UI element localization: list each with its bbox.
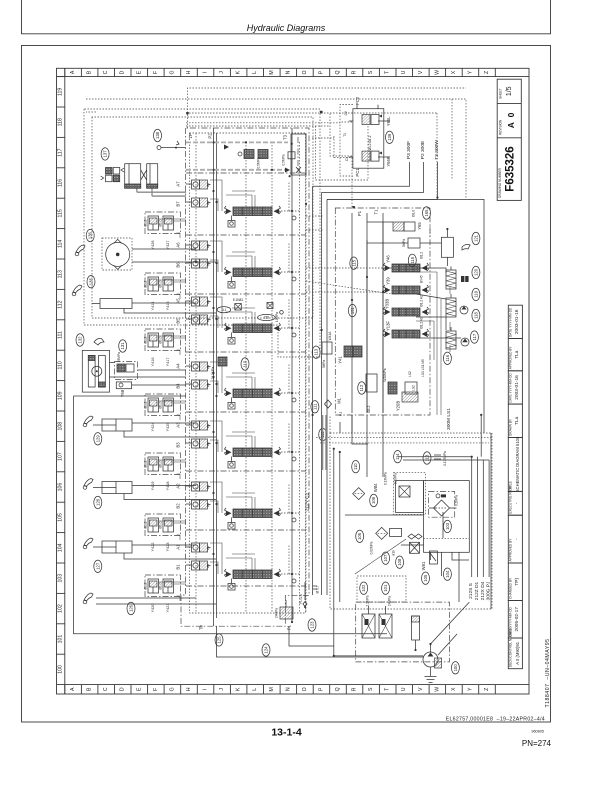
svg-text:J: J	[219, 71, 225, 74]
svg-text:101: 101	[383, 584, 388, 592]
svg-text:104: 104	[445, 570, 450, 578]
label ellipse 136	[86, 229, 94, 241]
relief spring stacks	[446, 266, 456, 349]
label ellipse 113	[312, 346, 320, 358]
svg-text:Hydraulic Diagrams: Hydraulic Diagrams	[247, 23, 326, 33]
hose icon 132	[94, 338, 104, 345]
svg-text:T188407 –UN–04MAY95: T188407 –UN–04MAY95	[545, 638, 551, 707]
label ellipse 124	[262, 644, 270, 656]
pilot solenoid pair Y419/Y418	[144, 453, 187, 490]
svg-text:108: 108	[397, 558, 402, 566]
svg-text:Ø1.0: Ø1.0	[159, 582, 163, 589]
svg-text:Y418: Y418	[166, 482, 170, 491]
filter 110 diamond	[353, 488, 365, 500]
svg-text:117: 117	[472, 333, 477, 340]
svg-text:Y46: Y46	[386, 255, 391, 263]
second pilot rail	[186, 169, 287, 171]
port code labels	[468, 581, 491, 600]
svg-text:111: 111	[58, 331, 64, 339]
pilot solenoid pair Y420/Y421	[144, 575, 187, 612]
svg-text:108: 108	[58, 422, 64, 431]
label ellipse 110	[241, 358, 249, 370]
svg-text:SHEET: SHEET	[499, 88, 503, 99]
svg-text:ø19: ø19	[392, 550, 396, 556]
main manifold dash-dot box	[181, 128, 309, 626]
valve section A2/B2	[175, 482, 300, 529]
nested dotted boundary bottoms	[316, 405, 493, 470]
svg-text:100: 100	[58, 665, 64, 674]
svg-text:LS2: LS2	[412, 385, 416, 391]
svg-text:102: 102	[58, 604, 64, 613]
svg-text:102: 102	[361, 584, 366, 592]
svg-text:W41A: W41A	[328, 331, 332, 341]
svg-text:R: R	[352, 70, 358, 74]
svg-text:B5: B5	[175, 318, 180, 324]
svg-text:116: 116	[58, 179, 64, 187]
svg-text:T3: T3	[283, 134, 288, 140]
inner pilot dotted box	[92, 117, 313, 318]
svg-text:TLa: TLa	[514, 350, 520, 359]
svg-text:B6: B6	[175, 262, 180, 268]
label ellipse 110	[352, 461, 360, 473]
A5 extra valves	[233, 298, 283, 314]
svg-text:131: 131	[120, 342, 125, 350]
svg-text:Y41: Y41	[338, 356, 343, 364]
svg-text:Y425: Y425	[166, 423, 170, 432]
svg-text:¤¶¤: ¤¶¤	[206, 423, 210, 428]
check 106	[370, 527, 402, 554]
svg-text:Ø1.2: Ø1.2	[144, 336, 148, 343]
svg-text:3MPa: 3MPa	[322, 360, 326, 369]
valve Y39	[384, 275, 429, 294]
bottom accumulator dash-dot box	[356, 602, 450, 662]
suction return long lines	[334, 449, 423, 656]
svg-text:¤¶¤: ¤¶¤	[206, 484, 210, 489]
label ellipse 114	[394, 451, 402, 463]
accumulator solenoid valves	[362, 606, 392, 638]
main pump	[423, 652, 438, 676]
svg-text:A: A	[70, 70, 76, 74]
svg-text:X: X	[451, 687, 457, 691]
plugged port	[282, 152, 302, 173]
svg-text:0.5MPa: 0.5MPa	[282, 154, 286, 165]
svg-text:G: G	[169, 687, 175, 691]
svg-text:110: 110	[353, 463, 358, 470]
svg-text:118: 118	[473, 311, 478, 318]
port labels Tb P1	[199, 608, 292, 630]
svg-text:Z: Z	[484, 71, 490, 74]
cylinder 135	[92, 299, 216, 314]
rail labels	[188, 133, 378, 216]
svg-text:W20MPa: W20MPa	[383, 368, 387, 381]
label ellipse 111	[311, 401, 319, 413]
svg-text:111: 111	[312, 403, 317, 410]
svg-text:2.2MPa: 2.2MPa	[366, 595, 370, 606]
svg-text:H: H	[186, 70, 192, 74]
tank symbol	[425, 677, 437, 683]
svg-text:L: L	[252, 688, 258, 691]
svg-text:J: J	[219, 688, 225, 691]
svg-text:B3: B3	[175, 442, 180, 448]
port code lines	[398, 415, 490, 577]
swing motor	[106, 239, 130, 269]
svg-text:B2: B2	[175, 503, 180, 509]
svg-text:0.5MPa: 0.5MPa	[256, 157, 260, 168]
svg-text:Y420: Y420	[151, 604, 155, 613]
0.5MPa check pair	[224, 145, 268, 169]
svg-text:137: 137	[103, 150, 108, 158]
svg-text:114: 114	[58, 240, 64, 248]
valve section A4/B4	[175, 362, 300, 409]
svg-text:B: B	[87, 687, 93, 691]
top-right port labels	[406, 140, 440, 160]
svg-text:Z: Z	[484, 688, 490, 691]
svg-text:0.175MPa: 0.175MPa	[443, 451, 447, 466]
cooler 108	[410, 542, 420, 553]
svg-text:126: 126	[129, 604, 134, 612]
svg-text:Y417: Y417	[166, 358, 170, 367]
cylinder row 127	[93, 541, 132, 553]
svg-text:2003-01-16: 2003-01-16	[514, 309, 520, 334]
svg-text:155: 155	[264, 316, 270, 320]
svg-text:115: 115	[58, 209, 64, 217]
dotted box around 101/102	[357, 576, 406, 602]
svg-text:1/5: 1/5	[506, 86, 513, 96]
svg-text:23MPa: 23MPa	[117, 352, 121, 362]
svg-text:M: M	[269, 70, 275, 74]
svg-text:106: 106	[357, 532, 362, 540]
svg-text:T1: T1	[373, 209, 378, 215]
svg-text:119: 119	[473, 290, 478, 297]
svg-text:TLa: TLa	[514, 416, 520, 425]
grid strips	[57, 68, 530, 694]
label ellipse 132	[76, 334, 84, 346]
small circle F	[461, 338, 469, 346]
svg-text:Y39: Y39	[386, 277, 391, 285]
svg-text:Y: Y	[467, 70, 473, 74]
pump assembly dotted box	[330, 433, 492, 609]
svg-text:G: G	[169, 70, 175, 74]
svg-text:101: 101	[58, 635, 64, 644]
svg-text:¤¶¤: ¤¶¤	[206, 545, 210, 550]
svg-text:1P: 1P	[188, 133, 193, 138]
svg-text:Y13F: Y13F	[386, 321, 391, 331]
pilot controller Y66 dashed enclosure	[340, 105, 353, 177]
label ellipse 115	[350, 257, 358, 269]
svg-text:Y20B: Y20B	[396, 401, 401, 411]
svg-text:129: 129	[95, 435, 100, 443]
svg-text:135: 135	[89, 278, 94, 286]
svg-text:Ø1.0: Ø1.0	[159, 336, 163, 343]
LS shuttle group	[366, 368, 417, 394]
svg-text:Q: Q	[335, 687, 341, 691]
svg-text:B7: B7	[175, 201, 180, 207]
svg-text:PC2: PC2	[355, 96, 360, 105]
valve section A5/B5	[175, 297, 300, 344]
svg-text:151: 151	[350, 306, 355, 314]
svg-text:2005-02-17: 2005-02-17	[514, 607, 520, 632]
pilot valve Y68	[115, 352, 138, 397]
svg-text:M: M	[269, 687, 275, 691]
svg-text:¤¶¤: ¤¶¤	[206, 382, 210, 387]
svg-text:C: C	[103, 70, 109, 74]
dotted box around breather	[394, 473, 426, 515]
svg-text:P3 300F: P3 300F	[406, 141, 412, 159]
svg-text:P: P	[318, 687, 324, 691]
svg-text:103: 103	[58, 574, 64, 583]
svg-text:125: 125	[217, 636, 222, 644]
svg-text:D: D	[120, 687, 126, 691]
pilot valve Y65	[393, 210, 422, 231]
svg-text:P2 300E: P2 300E	[420, 141, 426, 159]
pilot solenoid pair Y414/Y415	[144, 273, 187, 310]
reducing valve W42	[402, 238, 420, 248]
label ellipse 151	[348, 304, 356, 316]
svg-text:136: 136	[88, 231, 93, 239]
secondary manifold dash-dot box	[335, 208, 430, 415]
svg-text:DRAWING NUMBER: DRAWING NUMBER	[498, 167, 502, 198]
svg-text:Ø1.2: Ø1.2	[367, 405, 371, 412]
svg-text:A4: A4	[175, 363, 180, 369]
label ellipse 117	[470, 331, 478, 343]
svg-text:107: 107	[383, 554, 388, 562]
grid letters top/bottom	[65, 68, 496, 694]
svg-text:¤¶¤: ¤¶¤	[206, 200, 210, 205]
svg-text:S: S	[368, 687, 374, 691]
pilot solenoid pair Y426/Y427	[144, 212, 187, 249]
label ellipse 103	[443, 520, 451, 532]
gauge block	[435, 658, 442, 668]
svg-text:105: 105	[423, 574, 428, 582]
svg-text:2003-01-16: 2003-01-16	[514, 375, 520, 400]
pilot port lines	[313, 112, 439, 199]
svg-text:Tb: Tb	[199, 624, 204, 630]
svg-text:A 0: A 0	[506, 112, 516, 128]
breather sub-box	[396, 481, 424, 513]
label ellipse 119	[472, 288, 480, 300]
tank-to-pump wires	[431, 552, 460, 602]
svg-text:107: 107	[58, 452, 64, 461]
svg-text:138: 138	[155, 131, 160, 139]
svg-text:1L1: 1L1	[221, 308, 227, 312]
svg-text:¤¶¤: ¤¶¤	[206, 563, 210, 568]
svg-text:Ø1.0: Ø1.0	[412, 210, 416, 217]
svg-text:0.13MPa: 0.13MPa	[384, 472, 388, 485]
title block	[497, 79, 522, 669]
svg-text:106: 106	[58, 483, 64, 492]
valve section A6/B6	[175, 241, 300, 288]
svg-text:212Z D1: 212Z D1	[474, 581, 480, 600]
regulator cylinder	[441, 229, 453, 266]
svg-text:127: 127	[95, 562, 100, 570]
svg-text:T1: T1	[343, 133, 347, 137]
outer figure box	[22, 46, 551, 723]
label ellipse 116	[443, 352, 451, 364]
svg-text:W81: W81	[421, 561, 426, 570]
label ellipse 107	[382, 552, 390, 564]
svg-text:F: F	[153, 71, 159, 74]
svg-text:W: W	[434, 687, 440, 692]
svg-text:0.02MPa: 0.02MPa	[370, 541, 374, 554]
svg-text:¤¶¤: ¤¶¤	[206, 299, 210, 304]
svg-text:PC1: PC1	[355, 168, 360, 177]
svg-text:Y: Y	[467, 687, 473, 691]
net labels mid	[304, 359, 452, 511]
pilot solenoid pair Y422/Y423	[144, 514, 187, 551]
svg-text:113: 113	[314, 348, 319, 355]
svg-text:960805: 960805	[531, 730, 544, 734]
twin check diamonds	[408, 534, 422, 539]
boom cylinders pair	[125, 164, 186, 196]
svg-text:212X D4: 212X D4	[480, 581, 486, 600]
svg-text:H: H	[186, 687, 192, 691]
svg-text:APPROVED BY: APPROVED BY	[509, 538, 513, 562]
label ellipse 126	[127, 602, 135, 614]
svg-text:LS2: LS2	[408, 371, 412, 377]
svg-text:U: U	[401, 687, 407, 691]
svg-text:212Y C1: 212Y C1	[304, 492, 310, 511]
label ellipse 128	[94, 496, 102, 508]
accumulator	[412, 616, 420, 650]
svg-text:100: 100	[453, 664, 458, 672]
svg-text:24MPa: 24MPa	[275, 608, 279, 618]
label ellipse 127	[94, 560, 102, 572]
svg-text:BY45: BY45	[420, 275, 424, 283]
valve Y20B	[396, 385, 419, 411]
svg-text:Ø1.0: Ø1.0	[159, 280, 163, 287]
pilot circuit dotted box top-left	[84, 109, 320, 357]
return filter	[434, 500, 450, 516]
small valve group near 137	[101, 168, 124, 182]
svg-text:K: K	[236, 70, 242, 74]
svg-text:0.2MPa: 0.2MPa	[394, 473, 398, 484]
svg-text:19MPa: 19MPa	[275, 312, 279, 322]
svg-text:Ø1.0: Ø1.0	[159, 219, 163, 226]
M1 drain diamond	[325, 397, 344, 416]
svg-text:112: 112	[359, 384, 364, 391]
svg-text:Ø1.2: Ø1.2	[144, 219, 148, 226]
svg-text:109: 109	[371, 496, 376, 504]
svg-text:I: I	[203, 689, 209, 690]
svg-text:P2: P2	[208, 133, 213, 139]
svg-text:300G PJ: 300G PJ	[486, 581, 492, 600]
svg-text:119: 119	[58, 88, 64, 96]
sensor W81	[421, 551, 437, 570]
svg-text:121: 121	[473, 234, 478, 242]
svg-text:Y426: Y426	[151, 241, 155, 250]
svg-text:A7: A7	[175, 181, 180, 187]
svg-text:Ø1.2: Ø1.2	[144, 460, 148, 467]
svg-text:105: 105	[58, 513, 64, 522]
pump drive line	[431, 602, 470, 655]
label ellipse 106	[356, 530, 364, 542]
label ellipse 165	[423, 207, 431, 219]
svg-text:Y419: Y419	[151, 482, 155, 491]
svg-text:L: L	[252, 71, 258, 74]
lever 136	[75, 245, 85, 256]
svg-text:REVISION: REVISION	[499, 119, 503, 135]
svg-text:F: F	[153, 688, 159, 691]
relief 21.5MPa	[211, 312, 279, 380]
header rule and running title	[22, 0, 551, 34]
label ellipse 135	[87, 276, 95, 288]
svg-text:F635326: F635326	[505, 146, 517, 191]
svg-text:110: 110	[243, 360, 248, 367]
svg-text:¤¶¤: ¤¶¤	[206, 502, 210, 507]
valve Y41	[338, 346, 363, 364]
svg-text:109: 109	[58, 391, 64, 400]
svg-text:O: O	[302, 70, 308, 74]
svg-text:113: 113	[58, 270, 64, 278]
valve Y46	[384, 252, 429, 272]
svg-text:0.2MPa: 0.2MPa	[455, 495, 459, 506]
tank assembly box	[424, 481, 470, 553]
svg-text:SCHEMATIC DIAGRAM 6100: SCHEMATIC DIAGRAM 6100	[515, 436, 520, 492]
pilot solenoid pair Y424/Y425	[144, 394, 187, 431]
svg-text:CHANGED BY: CHANGED BY	[509, 577, 513, 599]
valve Y13F	[384, 317, 429, 338]
svg-text:LS1 LS1 M5: LS1 LS1 M5	[421, 359, 425, 377]
svg-text:B4: B4	[175, 383, 180, 389]
svg-text:112: 112	[58, 300, 64, 308]
cylinder row 128	[93, 482, 132, 494]
svg-text:Ø1.2 A1: Ø1.2 A1	[420, 317, 424, 329]
svg-text:N: N	[285, 70, 291, 74]
drain line 138	[157, 141, 186, 150]
pilot controller Y66L/Y66R	[343, 96, 391, 176]
svg-text:116: 116	[445, 354, 450, 361]
svg-text:T3 300W: T3 300W	[434, 140, 440, 160]
svg-text:Y423: Y423	[166, 543, 170, 552]
svg-text:¤¶¤: ¤¶¤	[206, 243, 210, 248]
svg-text:C: C	[103, 687, 109, 691]
P3/P2/T3 drop rails	[313, 186, 327, 595]
svg-text:Ø1.2: Ø1.2	[144, 280, 148, 287]
svg-text:S: S	[368, 70, 374, 74]
filter bypass check	[429, 494, 457, 508]
svg-text:Ø1.2: Ø1.2	[144, 401, 148, 408]
svg-text:C1: C1	[345, 157, 349, 161]
schematic border frame	[57, 68, 530, 694]
svg-text:¤¶¤: ¤¶¤	[206, 182, 210, 187]
svg-text:¤¶¤: ¤¶¤	[206, 441, 210, 446]
svg-text:118: 118	[58, 118, 64, 126]
svg-text:110: 110	[58, 361, 64, 369]
top dashed pilot lines	[186, 99, 452, 208]
svg-text:Ø1.0: Ø1.0	[159, 521, 163, 528]
svg-text:Ø1.0: Ø1.0	[159, 460, 163, 467]
svg-text:Y65: Y65	[417, 222, 422, 230]
svg-text:¤¶¤: ¤¶¤	[206, 317, 210, 322]
label ellipse 123	[308, 619, 316, 631]
valve Y33B	[384, 295, 429, 316]
svg-text:132: 132	[78, 336, 83, 344]
label ellipse 139	[386, 131, 394, 143]
pressure sensor block	[461, 276, 464, 282]
label ellipse 105	[422, 572, 430, 584]
grid numbers left	[57, 77, 65, 674]
svg-text:123: 123	[310, 621, 315, 629]
svg-text:P1: P1	[357, 210, 362, 216]
svg-text:120: 120	[473, 268, 478, 276]
svg-text:Y421: Y421	[166, 604, 170, 613]
svg-text:I: I	[203, 72, 209, 73]
svg-text:W: W	[434, 70, 440, 75]
svg-text:Ø1.2: Ø1.2	[420, 252, 424, 259]
svg-text:¤¶¤: ¤¶¤	[206, 364, 210, 369]
label ellipse 129	[94, 433, 102, 445]
valve section A7/B7	[175, 180, 300, 227]
